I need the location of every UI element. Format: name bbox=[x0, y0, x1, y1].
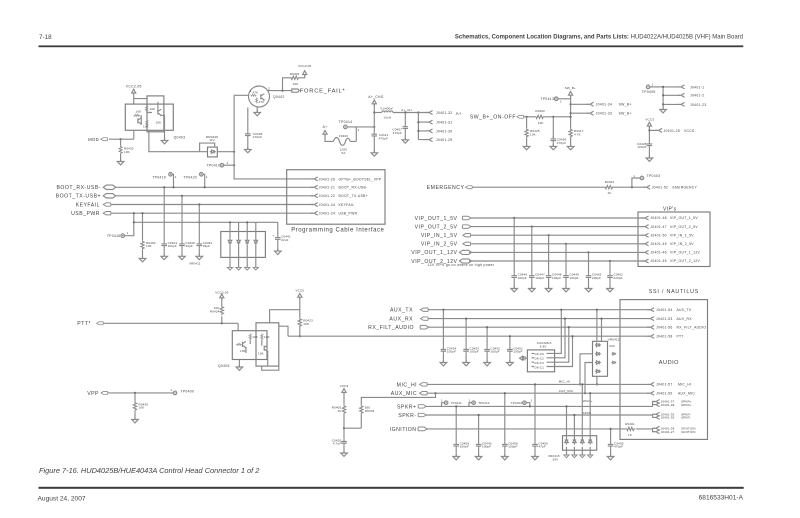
svg-text:TP0410: TP0410 bbox=[207, 164, 221, 168]
pin J0401-53 AUX_RX bbox=[647, 317, 654, 321]
wire bbox=[104, 323, 239, 330]
svg-text:10K: 10K bbox=[146, 244, 152, 248]
svg-text:OPTB+_BOOTSEL_VPP: OPTB+_BOOTSEL_VPP bbox=[339, 177, 382, 181]
svg-text:470pF: 470pF bbox=[393, 131, 402, 135]
svg-text:2: 2 bbox=[268, 86, 270, 90]
wire bbox=[116, 186, 313, 188]
svg-text:AUX_MIC: AUX_MIC bbox=[559, 389, 574, 393]
svg-text:100pF: 100pF bbox=[491, 350, 500, 354]
svg-text:USB_PWR: USB_PWR bbox=[71, 211, 100, 217]
test point TP0403 bbox=[632, 178, 640, 187]
svg-text:SW_B+: SW_B+ bbox=[619, 103, 632, 107]
svg-text:BOOT_TX-USB+: BOOT_TX-USB+ bbox=[56, 194, 101, 200]
svg-text:VCCS: VCCS bbox=[645, 117, 654, 121]
ground bbox=[238, 360, 240, 367]
input oval MOD bbox=[101, 138, 108, 141]
inductor L0400a bbox=[374, 112, 381, 114]
svg-text:10uH: 10uH bbox=[383, 115, 391, 119]
svg-text:J0401-56: J0401-56 bbox=[656, 326, 673, 330]
svg-text:TP0419: TP0419 bbox=[152, 175, 166, 179]
svg-text:J0401-45: J0401-45 bbox=[650, 259, 667, 263]
svg-text:A+: A+ bbox=[456, 111, 462, 116]
capacitor C0454 bbox=[442, 310, 444, 347]
svg-text:J0401-50: J0401-50 bbox=[650, 233, 667, 237]
diode array VR0412 bbox=[593, 341, 608, 376]
capacitor C0459 bbox=[455, 406, 457, 441]
svg-text:D6-C1: D6-C1 bbox=[535, 365, 545, 369]
capacitor C0463 bbox=[588, 252, 590, 273]
pin J0401-52 EMERGENCY bbox=[643, 185, 650, 189]
svg-text:10K: 10K bbox=[293, 82, 299, 86]
svg-text:R0409: R0409 bbox=[290, 72, 300, 76]
pin J0401-24 bbox=[311, 211, 318, 215]
svg-text:RX_FILT_AUDIO: RX_FILT_AUDIO bbox=[368, 325, 414, 331]
svg-text:August 24, 2007: August 24, 2007 bbox=[38, 496, 86, 503]
svg-text:VCC2.05: VCC2.05 bbox=[298, 64, 311, 68]
svg-text:10K: 10K bbox=[303, 322, 309, 326]
resistor R0420 bbox=[120, 139, 122, 145]
pin J0401-58 PTT bbox=[647, 334, 654, 338]
svg-text:VIP_OUT_2_5V: VIP_OUT_2_5V bbox=[415, 224, 458, 230]
transistor Q2 bbox=[264, 345, 267, 352]
svg-text:SSI / NAUTILUS: SSI / NAUTILUS bbox=[649, 289, 699, 295]
svg-text:BOOT_RX-USB-: BOOT_RX-USB- bbox=[56, 185, 101, 191]
svg-text:1: 1 bbox=[206, 175, 208, 179]
svg-text:VIP_OUT_1_12V: VIP_OUT_1_12V bbox=[411, 250, 457, 256]
svg-text:J0401-26: J0401-26 bbox=[319, 177, 336, 181]
svg-text:10K: 10K bbox=[150, 107, 156, 111]
wire collector out bbox=[267, 90, 292, 92]
capacitor C0450 bbox=[534, 384, 536, 441]
capacitor C0455 bbox=[610, 429, 612, 442]
svg-text:100pF: 100pF bbox=[168, 244, 177, 248]
svg-text:TP0420: TP0420 bbox=[183, 175, 197, 179]
svg-text:BOOT_RX-USB-: BOOT_RX-USB- bbox=[339, 186, 368, 190]
svg-text:SW_B+_ON-OFF: SW_B+_ON-OFF bbox=[470, 115, 516, 121]
wire internals bbox=[141, 102, 164, 131]
svg-text:SW_B+: SW_B+ bbox=[619, 112, 632, 116]
svg-text:1: 1 bbox=[227, 161, 229, 165]
svg-text:J0401-52: J0401-52 bbox=[652, 186, 669, 190]
wire bbox=[111, 212, 313, 214]
svg-text:R0402: R0402 bbox=[535, 109, 545, 113]
pin J0401-34 SW_B+ bbox=[571, 103, 589, 105]
svg-text:KEYFAIL: KEYFAIL bbox=[339, 203, 355, 207]
svg-text:100pF: 100pF bbox=[552, 276, 561, 280]
svg-text:J0401-44: J0401-44 bbox=[319, 203, 336, 207]
pin J0401-54 AUX_TX bbox=[647, 308, 654, 312]
svg-text:MIC_HI: MIC_HI bbox=[559, 380, 570, 384]
svg-text:J0401-54: J0401-54 bbox=[656, 308, 673, 312]
svg-text:J0401-57: J0401-57 bbox=[656, 383, 673, 387]
svg-text:J0401-1: J0401-1 bbox=[690, 85, 704, 89]
svg-text:1: 1 bbox=[127, 231, 129, 235]
svg-text:J0401-34: J0401-34 bbox=[596, 103, 613, 107]
svg-text:J0401-22: J0401-22 bbox=[319, 194, 336, 198]
diode 3 bbox=[246, 222, 248, 238]
svg-text:20V: 20V bbox=[609, 344, 615, 348]
svg-text:SW_B+: SW_B+ bbox=[565, 86, 576, 90]
svg-text:100pF: 100pF bbox=[460, 445, 469, 449]
diode 1 bbox=[566, 406, 568, 438]
svg-text:AUX_TX: AUX_TX bbox=[677, 308, 692, 312]
svg-text:5A: 5A bbox=[342, 151, 346, 155]
diode array VR0415 bbox=[563, 436, 597, 451]
svg-text:Programming Cable Interface: Programming Cable Interface bbox=[291, 228, 384, 234]
svg-text:TP0413: TP0413 bbox=[541, 97, 555, 101]
svg-text:100pF: 100pF bbox=[637, 145, 646, 149]
svg-text:100pF: 100pF bbox=[518, 276, 527, 280]
resistor R0430 bbox=[134, 393, 136, 402]
svg-text:100pF: 100pF bbox=[508, 445, 517, 449]
pin J0401-26 bbox=[311, 177, 318, 181]
ground (box right) bbox=[164, 130, 166, 140]
pin J0401-21 bbox=[311, 185, 318, 189]
svg-text:VR0412: VR0412 bbox=[608, 338, 620, 342]
pins J0401-36/35 SPKR- bbox=[653, 414, 656, 417]
svg-text:10K: 10K bbox=[240, 349, 246, 353]
svg-text:1K: 1K bbox=[337, 409, 341, 413]
svg-text:VIP_IN_1_5V: VIP_IN_1_5V bbox=[421, 233, 458, 239]
svg-text:J0401-29: J0401-29 bbox=[436, 138, 453, 142]
pin J0401-59 AUX_MIC bbox=[647, 391, 654, 395]
svg-text:1: 1 bbox=[652, 82, 654, 86]
svg-text:100pF: 100pF bbox=[470, 350, 479, 354]
resistor R0404 bbox=[604, 185, 614, 188]
svg-text:J0401-2: J0401-2 bbox=[690, 94, 704, 98]
svg-text:AUX_RX: AUX_RX bbox=[389, 316, 413, 322]
svg-text:A+_CHG: A+_CHG bbox=[368, 95, 384, 99]
wire bbox=[116, 195, 313, 197]
svg-text:J0401-33: J0401-33 bbox=[596, 112, 613, 116]
svg-text:TP0414: TP0414 bbox=[339, 120, 353, 124]
diode array VR0411 bbox=[221, 232, 266, 258]
svg-text:PTT: PTT bbox=[677, 335, 684, 339]
resistor R0406 bbox=[361, 393, 435, 405]
IC U0405 bbox=[527, 350, 554, 372]
capacitor C0462 bbox=[609, 261, 611, 273]
svg-text:PTT*: PTT* bbox=[77, 321, 91, 327]
svg-text:1: 1 bbox=[175, 175, 177, 179]
svg-text:VR0411: VR0411 bbox=[189, 261, 201, 265]
svg-text:MOD: MOD bbox=[88, 137, 99, 142]
svg-text:10K: 10K bbox=[156, 121, 162, 125]
svg-text:TP0412: TP0412 bbox=[478, 401, 490, 405]
svg-text:SPKR-: SPKR- bbox=[398, 413, 416, 419]
svg-text:SPKR+: SPKR+ bbox=[582, 399, 593, 403]
svg-text:J0401-48: J0401-48 bbox=[650, 216, 667, 220]
svg-text:Q0402: Q0402 bbox=[273, 95, 285, 99]
svg-text:A+: A+ bbox=[323, 125, 328, 129]
svg-text:6.8V: 6.8V bbox=[540, 344, 547, 348]
svg-text:TP0400: TP0400 bbox=[181, 390, 195, 394]
svg-text:1: 1 bbox=[560, 100, 562, 104]
svg-text:MIC_HI: MIC_HI bbox=[397, 382, 417, 388]
svg-text:10K: 10K bbox=[124, 150, 130, 154]
ground bbox=[662, 104, 664, 109]
test point TP0405 bbox=[646, 85, 650, 89]
svg-text:D6-C6: D6-C6 bbox=[535, 352, 545, 356]
wire VR0412 top bbox=[597, 310, 602, 342]
svg-text:12V VIPS go no where on high p: 12V VIPS go no where on high power bbox=[428, 263, 495, 267]
svg-text:VIP_OUT_1_5V: VIP_OUT_1_5V bbox=[415, 216, 458, 222]
svg-text:TP0402: TP0402 bbox=[511, 401, 523, 405]
pins J0401-1/2/23 bbox=[678, 85, 685, 89]
pin J0401-44 bbox=[311, 203, 318, 207]
svg-text:33pF: 33pF bbox=[185, 244, 192, 248]
svg-text:J0401-38: J0401-38 bbox=[661, 403, 675, 407]
resistor R0423 bbox=[298, 318, 301, 328]
resistor 10K (upper) bbox=[145, 106, 147, 113]
wire bbox=[111, 204, 313, 206]
capacitor C0453 bbox=[465, 319, 467, 347]
svg-text:Q0405: Q0405 bbox=[218, 364, 230, 368]
svg-text:10K: 10K bbox=[143, 125, 149, 129]
ground (Q0402 emitter) bbox=[256, 107, 258, 112]
svg-text:33pF: 33pF bbox=[203, 244, 210, 248]
svg-text:470pF: 470pF bbox=[614, 445, 623, 449]
svg-text:470pF: 470pF bbox=[253, 135, 262, 139]
svg-text:VIP_OUT_1_5V: VIP_OUT_1_5V bbox=[670, 216, 698, 220]
input cap bbox=[520, 356, 528, 360]
svg-text:Figure 7-16. HUD4025B/HUE4043A: Figure 7-16. HUD4025B/HUE4043A Control H… bbox=[39, 466, 259, 475]
svg-text:10K: 10K bbox=[136, 110, 142, 114]
svg-text:SPKR+: SPKR+ bbox=[681, 403, 692, 407]
svg-text:TP0416: TP0416 bbox=[107, 234, 121, 238]
svg-text:Q0403: Q0403 bbox=[174, 135, 186, 139]
resistor R0409 bbox=[283, 78, 290, 91]
svg-text:VIP_IN_2_5V: VIP_IN_2_5V bbox=[421, 242, 458, 248]
capacitor C0420 bbox=[343, 428, 345, 439]
svg-text:20V: 20V bbox=[553, 457, 559, 461]
svg-text:4.7K: 4.7K bbox=[574, 132, 581, 136]
svg-text:10K: 10K bbox=[538, 121, 544, 125]
fuse F0400 bbox=[334, 138, 351, 146]
svg-text:R0404: R0404 bbox=[605, 180, 615, 184]
svg-text:1: 1 bbox=[358, 128, 360, 132]
svg-text:1: 1 bbox=[531, 399, 533, 403]
svg-text:7-18: 7-18 bbox=[39, 34, 52, 41]
capacitor C0451 bbox=[509, 336, 511, 347]
svg-text:R0406: R0406 bbox=[365, 409, 375, 413]
svg-text:IGNITION: IGNITION bbox=[390, 427, 417, 433]
ground bbox=[371, 150, 378, 156]
svg-text:*L0400a*: *L0400a* bbox=[380, 106, 394, 110]
wire VR0412 bottom bbox=[580, 354, 597, 393]
svg-text:10K: 10K bbox=[264, 335, 270, 339]
wire out bbox=[279, 326, 288, 336]
svg-text:1K: 1K bbox=[608, 191, 612, 195]
capacitor C0440 bbox=[478, 415, 480, 442]
svg-text:AUX_MIC: AUX_MIC bbox=[391, 391, 417, 397]
transistor Q2 bbox=[158, 109, 161, 116]
svg-text:AUDIO: AUDIO bbox=[659, 360, 679, 366]
svg-text:MIC_HI: MIC_HI bbox=[678, 383, 691, 387]
svg-text:AUX_RX: AUX_RX bbox=[677, 317, 693, 321]
wire top bbox=[270, 310, 300, 323]
transistor Q1 bbox=[243, 341, 246, 348]
svg-text:SPKR+: SPKR+ bbox=[397, 404, 417, 410]
pin J0401-57 MIC_HI bbox=[647, 382, 654, 386]
pins J0401-37/38 SPKR+ bbox=[653, 402, 656, 407]
capacitor C0428 bbox=[647, 141, 653, 148]
svg-text:EMERGENCY: EMERGENCY bbox=[427, 185, 465, 191]
svg-text:J0401-47: J0401-47 bbox=[650, 225, 667, 229]
svg-text:1: 1 bbox=[250, 89, 252, 93]
svg-text:J0401-35: J0401-35 bbox=[661, 416, 675, 420]
box SSI/AUDIO bbox=[620, 300, 708, 440]
capacitor C0446 bbox=[513, 218, 515, 273]
wire to diode bbox=[149, 130, 208, 151]
svg-text:10K: 10K bbox=[258, 352, 264, 356]
pins J0401-28/27 IGNITION bbox=[653, 428, 656, 431]
capacitor C0423 bbox=[163, 187, 165, 241]
svg-text:AUX_MIC: AUX_MIC bbox=[678, 392, 695, 396]
svg-text:J0401-32: J0401-32 bbox=[436, 111, 453, 115]
svg-text:D6-C3: D6-C3 bbox=[535, 361, 545, 365]
resistor R0424 bbox=[221, 316, 223, 323]
svg-text:47pF: 47pF bbox=[538, 445, 545, 449]
wire bbox=[109, 130, 134, 139]
svg-text:J0401-27: J0401-27 bbox=[661, 430, 675, 434]
svg-text:J0401-21: J0401-21 bbox=[319, 186, 336, 190]
svg-text:100pF: 100pF bbox=[569, 276, 578, 280]
svg-text:AUX_TX: AUX_TX bbox=[390, 308, 413, 314]
svg-text:100pF: 100pF bbox=[513, 350, 522, 354]
svg-text:47K: 47K bbox=[253, 91, 259, 95]
capacitor C0426 bbox=[181, 196, 183, 242]
wire internals bbox=[246, 340, 268, 366]
ground bbox=[117, 159, 124, 165]
svg-text:4.7uF: 4.7uF bbox=[333, 442, 341, 446]
svg-text:10K: 10K bbox=[252, 335, 258, 339]
resistor 10K bbox=[249, 334, 251, 341]
svg-text:TP0405: TP0405 bbox=[642, 90, 656, 94]
pin J0401-33 SW_B+ bbox=[571, 112, 589, 114]
resistor R0417 bbox=[569, 128, 572, 138]
svg-text:J0401-31: J0401-31 bbox=[436, 121, 453, 125]
svg-text:TP0411: TP0411 bbox=[451, 401, 462, 405]
svg-text:1: 1 bbox=[171, 388, 173, 392]
svg-text:+: + bbox=[272, 233, 274, 237]
resistor 10K (lower) bbox=[146, 120, 148, 127]
svg-text:VIP_OUT_2_12V: VIP_OUT_2_12V bbox=[670, 259, 701, 263]
capacitor C0458 bbox=[504, 393, 506, 442]
svg-text:J0401-58: J0401-58 bbox=[656, 335, 673, 339]
transistor pair box Q0405 bbox=[232, 331, 267, 360]
svg-text:EMERGENCY: EMERGENCY bbox=[673, 186, 698, 190]
svg-text:1: 1 bbox=[469, 399, 471, 403]
pin J0401-25 VCCS bbox=[649, 129, 657, 131]
diode MR0428 bbox=[208, 147, 218, 157]
resistor R0402 bbox=[535, 115, 545, 118]
svg-text:BOOT_TX-USB+: BOOT_TX-USB+ bbox=[339, 194, 369, 198]
capacitor C0421 bbox=[372, 132, 378, 139]
box Programming Cable Interface bbox=[287, 170, 385, 225]
capacitor C0441 bbox=[277, 222, 279, 235]
capacitor C0456 bbox=[552, 116, 554, 118]
svg-text:1: 1 bbox=[441, 399, 443, 403]
pins J0401-32..29 bbox=[418, 113, 428, 140]
capacitor C0449 bbox=[565, 244, 567, 273]
svg-text:VCC5: VCC5 bbox=[295, 289, 304, 293]
svg-text:11V: 11V bbox=[209, 138, 215, 142]
svg-text:J0401-24: J0401-24 bbox=[319, 212, 336, 216]
resistor R0425 bbox=[526, 117, 528, 128]
diode 3 bbox=[581, 384, 583, 438]
transistor pair box Q0403 bbox=[125, 104, 173, 130]
svg-text:100pF: 100pF bbox=[482, 445, 491, 449]
svg-text:220pF: 220pF bbox=[613, 276, 622, 280]
svg-text:RX_FILT_AUDIO: RX_FILT_AUDIO bbox=[677, 326, 707, 330]
svg-text:VIP_IN_1_5V: VIP_IN_1_5V bbox=[670, 233, 694, 237]
svg-text:10K: 10K bbox=[139, 406, 145, 410]
svg-text:6816533H01-A: 6816533H01-A bbox=[699, 495, 744, 502]
svg-text:470pF: 470pF bbox=[379, 136, 388, 140]
svg-text:220pF: 220pF bbox=[592, 276, 601, 280]
wire risers bbox=[555, 310, 573, 367]
svg-text:R0424: R0424 bbox=[210, 309, 220, 313]
svg-text:470pF: 470pF bbox=[557, 141, 566, 145]
svg-text:USB_PWR: USB_PWR bbox=[339, 212, 358, 216]
transistor Q0402 bbox=[249, 86, 270, 107]
capacitor C0448 bbox=[548, 235, 550, 273]
wire bus bbox=[134, 221, 278, 223]
test point TP0411 bbox=[442, 403, 445, 407]
resistor R0403 bbox=[142, 213, 144, 240]
svg-text:SPKR-: SPKR- bbox=[681, 416, 691, 420]
svg-text:VIP_OUT_1_12V: VIP_OUT_1_12V bbox=[670, 251, 701, 255]
svg-text:J0401-59: J0401-59 bbox=[656, 392, 673, 396]
svg-text:VIP_OUT_2_5V: VIP_OUT_2_5V bbox=[670, 225, 698, 229]
svg-text:1K: 1K bbox=[628, 433, 632, 437]
svg-text:100pF: 100pF bbox=[447, 350, 456, 354]
svg-text:J0401-25: J0401-25 bbox=[664, 129, 681, 133]
resistor R0401 bbox=[626, 427, 636, 430]
wire bbox=[217, 151, 234, 153]
svg-text:Schematics, Component Location: Schematics, Component Location Diagrams,… bbox=[455, 34, 743, 40]
svg-text:J0401-46: J0401-46 bbox=[650, 251, 667, 255]
box VIP bbox=[638, 212, 710, 267]
svg-text:VIP_IN_2_5V: VIP_IN_2_5V bbox=[670, 242, 694, 246]
resistor 10K (base) bbox=[134, 114, 141, 116]
resistor 10K bbox=[261, 334, 263, 341]
svg-text:22uF: 22uF bbox=[281, 238, 288, 242]
test point TP0412 bbox=[469, 403, 472, 407]
svg-text:VPP: VPP bbox=[87, 391, 99, 397]
svg-text:J0401-49: J0401-49 bbox=[650, 242, 667, 246]
svg-text:J0401-23: J0401-23 bbox=[690, 103, 707, 107]
capacitor C0447 bbox=[531, 227, 533, 274]
svg-text:R0401: R0401 bbox=[625, 422, 635, 426]
ground bbox=[245, 147, 252, 153]
capacitor C0452 bbox=[486, 327, 488, 347]
capacitor C0464 bbox=[198, 205, 200, 242]
svg-text:1: 1 bbox=[633, 174, 635, 178]
svg-text:FORCE_FAIL*: FORCE_FAIL* bbox=[300, 89, 346, 95]
diode 4 bbox=[255, 222, 257, 238]
pin J0401-56 RX_FILT_AUDIO bbox=[647, 325, 654, 329]
svg-text:A+_CH: A+_CH bbox=[401, 108, 412, 112]
svg-text:IGNITION: IGNITION bbox=[681, 430, 696, 434]
svg-text:TP0403: TP0403 bbox=[647, 174, 661, 178]
wire base bbox=[234, 94, 248, 96]
svg-text:10K: 10K bbox=[530, 132, 536, 136]
svg-text:J0401-53: J0401-53 bbox=[656, 317, 673, 321]
svg-text:D6-C2: D6-C2 bbox=[535, 357, 545, 361]
wire bus bbox=[234, 95, 313, 179]
svg-text:J0401-30: J0401-30 bbox=[436, 129, 453, 133]
